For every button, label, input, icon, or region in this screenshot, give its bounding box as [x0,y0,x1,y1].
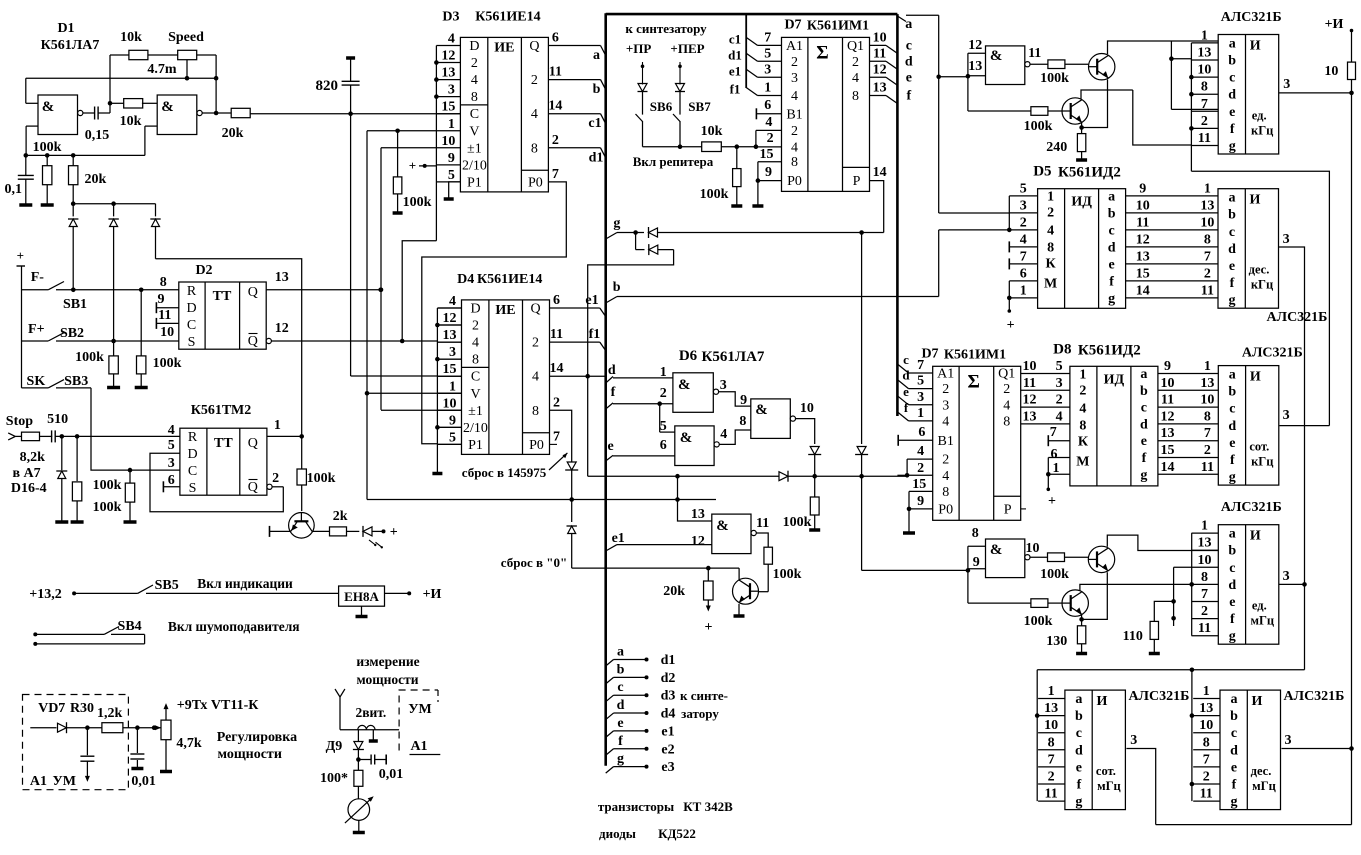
resistor 100k T3 [1030,556,1048,558]
svg-text:Q1: Q1 [998,367,1015,382]
svg-text:6: 6 [1051,447,1058,462]
svg-text:&: & [755,402,768,418]
svg-text:P1: P1 [467,175,482,190]
svg-text:D4: D4 [457,272,474,287]
svg-text:4: 4 [1079,401,1086,416]
svg-text:a: a [617,645,624,660]
svg-text:2: 2 [660,386,667,401]
T2 emitter node [1081,122,1083,133]
D4 pin bus ground [432,472,442,476]
resistor 100k LED [301,436,303,469]
svg-text:14: 14 [548,99,562,114]
svg-text:Вкл шумоподавителя: Вкл шумоподавителя [168,619,300,634]
D7 pins 15-9 step gnd [758,161,782,163]
D3 outputs to bus a b c1 d1 [548,45,600,47]
svg-text:100k: 100k [773,567,802,582]
transformer tap gnd [372,730,374,740]
svg-text:12: 12 [443,311,457,326]
svg-text:И: И [1250,39,1261,54]
svg-text:f: f [906,89,911,104]
wire oscillator output to D3 C [250,113,460,115]
svg-text:11: 11 [1161,393,1174,408]
svg-text:2: 2 [942,453,949,468]
svg-text:D16-4: D16-4 [11,481,47,496]
svg-text:4: 4 [471,73,478,88]
svg-text:К561ЛА7: К561ЛА7 [702,349,765,365]
svg-text:8: 8 [1204,409,1211,424]
D5 step 6-1 plus [1009,280,1037,282]
svg-text:a: a [1231,692,1238,707]
D3 data pin bus [435,46,437,241]
svg-text:КТ 342В: КТ 342В [683,799,733,814]
svg-text:2: 2 [852,55,859,70]
svg-text:13: 13 [691,507,705,522]
svg-text:d: d [1228,578,1236,593]
svg-text:8: 8 [1203,735,1210,750]
wire D4 P1 stub [437,443,461,445]
diode reset chain 2 [567,525,577,527]
wire EH8A out +I [385,592,410,594]
svg-text:2: 2 [1047,206,1054,221]
svg-text:Д9: Д9 [326,739,343,754]
svg-text:2: 2 [471,56,478,71]
svg-text:e: e [1076,760,1082,775]
diode g row [648,227,650,238]
svg-text:VD7: VD7 [38,701,65,716]
svg-text:e: e [1231,760,1237,775]
svg-text:2вит.: 2вит. [355,705,386,720]
transistor T6 [289,513,315,539]
svg-text:13: 13 [441,66,455,81]
svg-text:5: 5 [168,438,175,453]
svg-text:d: d [1140,417,1148,432]
svg-text:b: b [617,662,625,677]
svg-text:7: 7 [764,30,771,45]
svg-text:b: b [1228,544,1236,559]
svg-text:b: b [1228,54,1236,69]
svg-text:P0: P0 [938,502,953,517]
svg-text:8: 8 [791,155,798,170]
svg-text:2: 2 [1048,770,1055,785]
wire b long [617,296,939,298]
svg-text:C: C [470,107,479,122]
svg-text:10k: 10k [120,30,142,45]
wire D3 V row [367,130,436,132]
svg-text:мощности: мощности [217,747,281,762]
svg-text:9: 9 [740,393,747,408]
wire a to bus2 [906,14,939,16]
svg-text:D7: D7 [784,17,801,32]
svg-text:7: 7 [553,429,560,444]
svg-text:SK: SK [27,374,46,389]
svg-text:D2: D2 [195,263,212,278]
svg-text:8: 8 [531,141,538,156]
svg-text:4: 4 [942,469,949,484]
svg-text:8: 8 [1079,418,1086,433]
svg-text:12: 12 [275,321,289,336]
wire gate2 out to gate3 [719,430,751,444]
vertical b-e link [1170,41,1172,109]
D4 data pin bus [436,308,438,472]
svg-text:f: f [1109,274,1114,289]
svg-text:К561ТМ2: К561ТМ2 [191,403,252,418]
svg-text:+ПЕР: +ПЕР [670,41,704,56]
svg-text:4: 4 [917,444,924,459]
svg-text:g: g [1229,629,1236,644]
resistor 100k gate4 [764,547,773,564]
svg-text:сброс в 145975: сброс в 145975 [462,465,547,480]
wire 476 to D7b [897,474,907,476]
svg-text:5: 5 [764,46,771,61]
svg-text:К561ЛА7: К561ЛА7 [41,38,100,53]
svg-text:820: 820 [315,78,338,94]
svg-text:14: 14 [550,361,564,376]
svg-text:a: a [905,17,912,32]
svg-text:7: 7 [1048,752,1055,767]
resistor 100k repeater [736,147,738,169]
svg-text:B1: B1 [786,107,802,122]
svg-text:11: 11 [1023,376,1036,391]
svg-text:Q: Q [248,480,258,495]
D5 step 5-3 [1009,195,1037,197]
svg-text:C: C [471,370,480,385]
svg-text:к синтезатору: к синтезатору [625,21,707,36]
wire b to D5 pin3 [939,212,1010,214]
svg-text:±1: ±1 [468,404,483,419]
diode in 476 line [779,472,788,481]
svg-text:1: 1 [1204,181,1211,196]
D7b pins 15-9 step gnd [909,490,933,492]
svg-text:f: f [1230,276,1235,291]
svg-text:b: b [1228,385,1236,400]
disp4 stub vertical [1191,533,1193,636]
svg-text:7: 7 [1201,587,1208,602]
wire repeater to 10k [643,146,702,148]
bus frame top edge [606,13,898,16]
transistor T3 [1088,546,1114,572]
svg-text:100k: 100k [700,187,729,202]
svg-text:1: 1 [274,418,281,433]
svg-text:мГц: мГц [1097,779,1121,793]
antenna input [335,689,340,697]
svg-text:Q1: Q1 [847,39,864,54]
resistor 10k top [129,50,148,59]
D3 P0 route [422,182,567,444]
svg-text:4: 4 [448,32,455,47]
svg-text:12: 12 [1161,409,1175,424]
svg-text:ИД: ИД [1104,372,1125,387]
svg-text:13: 13 [1200,198,1214,213]
svg-text:10: 10 [443,396,457,411]
svg-text:510: 510 [47,412,68,427]
resistor 100k d6 [810,497,819,515]
svg-text:4: 4 [852,71,859,86]
svg-text:c: c [1229,71,1235,86]
svg-text:f: f [611,385,616,400]
svg-text:c1: c1 [588,116,601,131]
D8 tick stub 7 [1047,435,1049,446]
svg-text:f: f [1230,122,1235,137]
svg-text:c: c [906,38,912,53]
svg-text:e1: e1 [612,531,625,546]
svg-text:e: e [1229,436,1235,451]
svg-text:A1: A1 [937,367,954,382]
svg-text:0,01: 0,01 [379,767,404,782]
svg-text:10: 10 [800,401,814,416]
wire D3 pm1 row [381,147,436,149]
svg-text:8: 8 [852,89,859,104]
svg-text:8: 8 [1048,735,1055,750]
svg-text:11: 11 [550,327,563,342]
D4 output 4 row to d [550,375,606,377]
wire D4 V row [367,392,462,394]
svg-text:1: 1 [449,379,456,394]
svg-text:2: 2 [1203,770,1210,785]
svg-text:12: 12 [1136,232,1150,247]
svg-text:12: 12 [968,38,982,53]
svg-text:10: 10 [160,325,174,340]
svg-text:4: 4 [531,107,538,122]
capacitor 820 [346,56,355,60]
disp6 stub vertical [1191,670,1193,801]
svg-text:+: + [1048,494,1056,509]
svg-text:8: 8 [532,404,539,419]
svg-text:S: S [189,481,197,496]
svg-text:2: 2 [272,471,279,486]
svg-text:2: 2 [1201,604,1208,619]
wire top feedback [110,54,129,56]
svg-text:d4: d4 [661,707,676,722]
svg-text:d: d [902,368,910,383]
svg-text:f1: f1 [730,82,741,97]
svg-text:9: 9 [448,151,455,166]
svg-text:Вкл репитера: Вкл репитера [633,154,714,169]
svg-text:P: P [853,174,861,189]
svg-text:4,7k: 4,7k [176,736,202,751]
svg-text:5: 5 [917,374,924,389]
svg-text:f: f [1077,778,1082,793]
svg-text:13: 13 [1199,701,1213,716]
wire second diode row [635,233,637,250]
svg-text:кГц: кГц [1251,455,1273,469]
svg-text:c: c [1229,402,1235,417]
svg-text:УМ: УМ [52,774,76,789]
svg-text:4: 4 [791,89,798,104]
svg-text:5: 5 [660,419,667,434]
svg-text:D3: D3 [442,9,459,24]
svg-text:М: М [1076,454,1089,469]
svg-text:d: d [608,363,616,378]
svg-text:4: 4 [472,336,479,351]
T4 collector wire to d row [1080,584,1192,590]
svg-text:4: 4 [168,423,175,438]
svg-text:a: a [1075,692,1082,707]
resistor 100k T4 [1031,599,1048,608]
resistor 20k output [231,108,250,117]
svg-text:10: 10 [1044,718,1058,733]
svg-text:100k: 100k [93,478,122,493]
svg-text:P0: P0 [529,438,544,453]
svg-text:d: d [1108,240,1116,255]
svg-text:11: 11 [1198,621,1211,636]
svg-text:И: И [1250,193,1261,208]
svg-text:B1: B1 [938,434,954,449]
svg-text:8: 8 [1201,570,1208,585]
svg-text:e: e [1141,434,1147,449]
svg-text:+9Тх VТ11-К: +9Тх VТ11-К [177,698,259,713]
svg-text:a: a [1140,367,1147,382]
D4 output 8 row chain [550,410,572,462]
disp4 cef vertical [1173,567,1175,626]
wires D8 to disp3 [1158,373,1218,375]
svg-text:&: & [716,518,729,534]
svg-text:10: 10 [1161,376,1175,391]
wire speed wiper [186,60,188,78]
svg-text:2: 2 [917,461,924,476]
svg-text:&: & [42,99,55,115]
svg-text:100k: 100k [1024,614,1053,629]
svg-text:D6: D6 [679,348,698,364]
D7 pins 4-2 step [756,129,782,131]
svg-text:6: 6 [918,425,925,440]
svg-text:8: 8 [1047,241,1054,256]
svg-text:SB6: SB6 [650,99,673,114]
svg-text:К561ИЕ14: К561ИЕ14 [475,9,540,24]
svg-text:F-: F- [31,270,45,285]
T2 collector wire to g row [1081,90,1133,99]
svg-text:И: И [1250,370,1261,385]
svg-text:4: 4 [720,427,727,442]
capacitor 0,01 meter [358,759,371,761]
svg-text:S: S [188,335,196,350]
T5 collector from sbros line [738,568,740,579]
svg-text:4: 4 [1003,398,1010,413]
T4 emitter node [1081,614,1083,626]
svg-text:D5: D5 [1033,164,1051,180]
svg-text:D1: D1 [57,21,74,36]
svg-text:1: 1 [1020,283,1027,298]
wire f branch to gate2 [659,404,661,432]
svg-text:диоды: диоды [599,826,636,841]
svg-text:3: 3 [764,62,771,77]
svg-text:12: 12 [873,62,887,77]
svg-text:ИЕ: ИЕ [495,303,515,318]
diode to ground [61,436,63,470]
resistor 240 [1077,134,1085,152]
resistor 100k under SB2 [113,341,115,356]
svg-text:8: 8 [160,275,167,290]
resistor 20k [72,155,74,165]
svg-text:14: 14 [1161,460,1175,475]
svg-text:ИД: ИД [1071,195,1092,210]
svg-text:К561ИД2: К561ИД2 [1078,342,1141,358]
gate D6.3 [751,399,791,439]
svg-text:g: g [1140,468,1147,483]
capacitor 0,01 left [136,728,138,753]
svg-text:мГц: мГц [1250,614,1274,628]
svg-text:100*: 100* [320,771,348,786]
svg-text:e: e [1229,595,1235,610]
svg-text:2: 2 [552,133,559,148]
wires D5 to disp2 [1126,195,1218,197]
svg-text:D8: D8 [1053,341,1071,357]
svg-text:10: 10 [1324,64,1338,79]
svg-text:a: a [1229,36,1236,51]
capacitor 0,1 [25,155,27,175]
wire SB5 [72,591,76,595]
svg-text:М: М [1044,277,1057,292]
svg-text:13: 13 [1200,376,1214,391]
diode d6 out [810,447,819,455]
svg-text:Регулировка: Регулировка [217,730,297,745]
svg-text:d2: d2 [661,671,676,686]
svg-text:2: 2 [472,319,479,334]
svg-text:10: 10 [1136,198,1150,213]
svg-text:130: 130 [1046,634,1067,649]
svg-text:+: + [390,525,398,540]
svg-text:g: g [613,216,620,231]
svg-text:3: 3 [448,83,455,98]
svg-text:+ПР: +ПР [626,41,652,56]
svg-text:измерение: измерение [356,654,419,669]
svg-text:11: 11 [1028,46,1041,61]
label a top [897,16,906,22]
svg-text:2: 2 [1020,215,1027,230]
svg-text:8: 8 [472,353,479,368]
svg-text:V: V [469,124,479,139]
svg-text:к синте-: к синте- [680,688,728,703]
svg-text:А1: А1 [410,739,427,754]
diode row 2 [648,244,650,255]
svg-text:100k: 100k [75,350,104,365]
wire long 476 line [588,475,779,477]
svg-text:100k: 100k [1024,119,1053,134]
svg-text:6: 6 [764,98,771,113]
wire g to bottom gate [862,569,969,571]
svg-text:К: К [1046,257,1057,272]
D7b input diagonals c d e f [897,364,908,373]
svg-text:4: 4 [449,294,456,309]
svg-text:a: a [1108,189,1115,204]
resistor 10 [1348,62,1356,79]
wire T4 base step [967,569,969,603]
wire to gate4 pin13 [678,476,712,521]
svg-text:8: 8 [1204,232,1211,247]
D7 input diagonals c1 d1 e1 f1 [745,14,747,88]
svg-text:g: g [1229,293,1236,308]
svg-text:3: 3 [1283,232,1290,247]
svg-text:F+: F+ [28,322,45,337]
svg-text:+13,2: +13,2 [29,587,61,602]
svg-text:11: 11 [1201,460,1214,475]
T3 emitter wire [1082,572,1108,619]
disp1 stub vertical [1190,43,1192,171]
svg-text:3: 3 [449,345,456,360]
svg-text:7: 7 [1020,249,1027,264]
svg-text:+И: +И [1325,17,1344,32]
svg-text:f: f [1230,453,1235,468]
svg-text:&: & [680,430,693,446]
svg-text:c: c [1141,401,1147,416]
resistor 110 [1154,601,1173,621]
wire 3-bus bottom horizontal [1037,669,1304,671]
svg-text:Stop: Stop [6,414,33,429]
resistor 100* [354,770,363,786]
svg-text:4: 4 [532,370,539,385]
svg-text:15: 15 [760,147,774,162]
wire feedback rail y78 [26,77,216,79]
D4 output P0 stub [550,443,558,445]
